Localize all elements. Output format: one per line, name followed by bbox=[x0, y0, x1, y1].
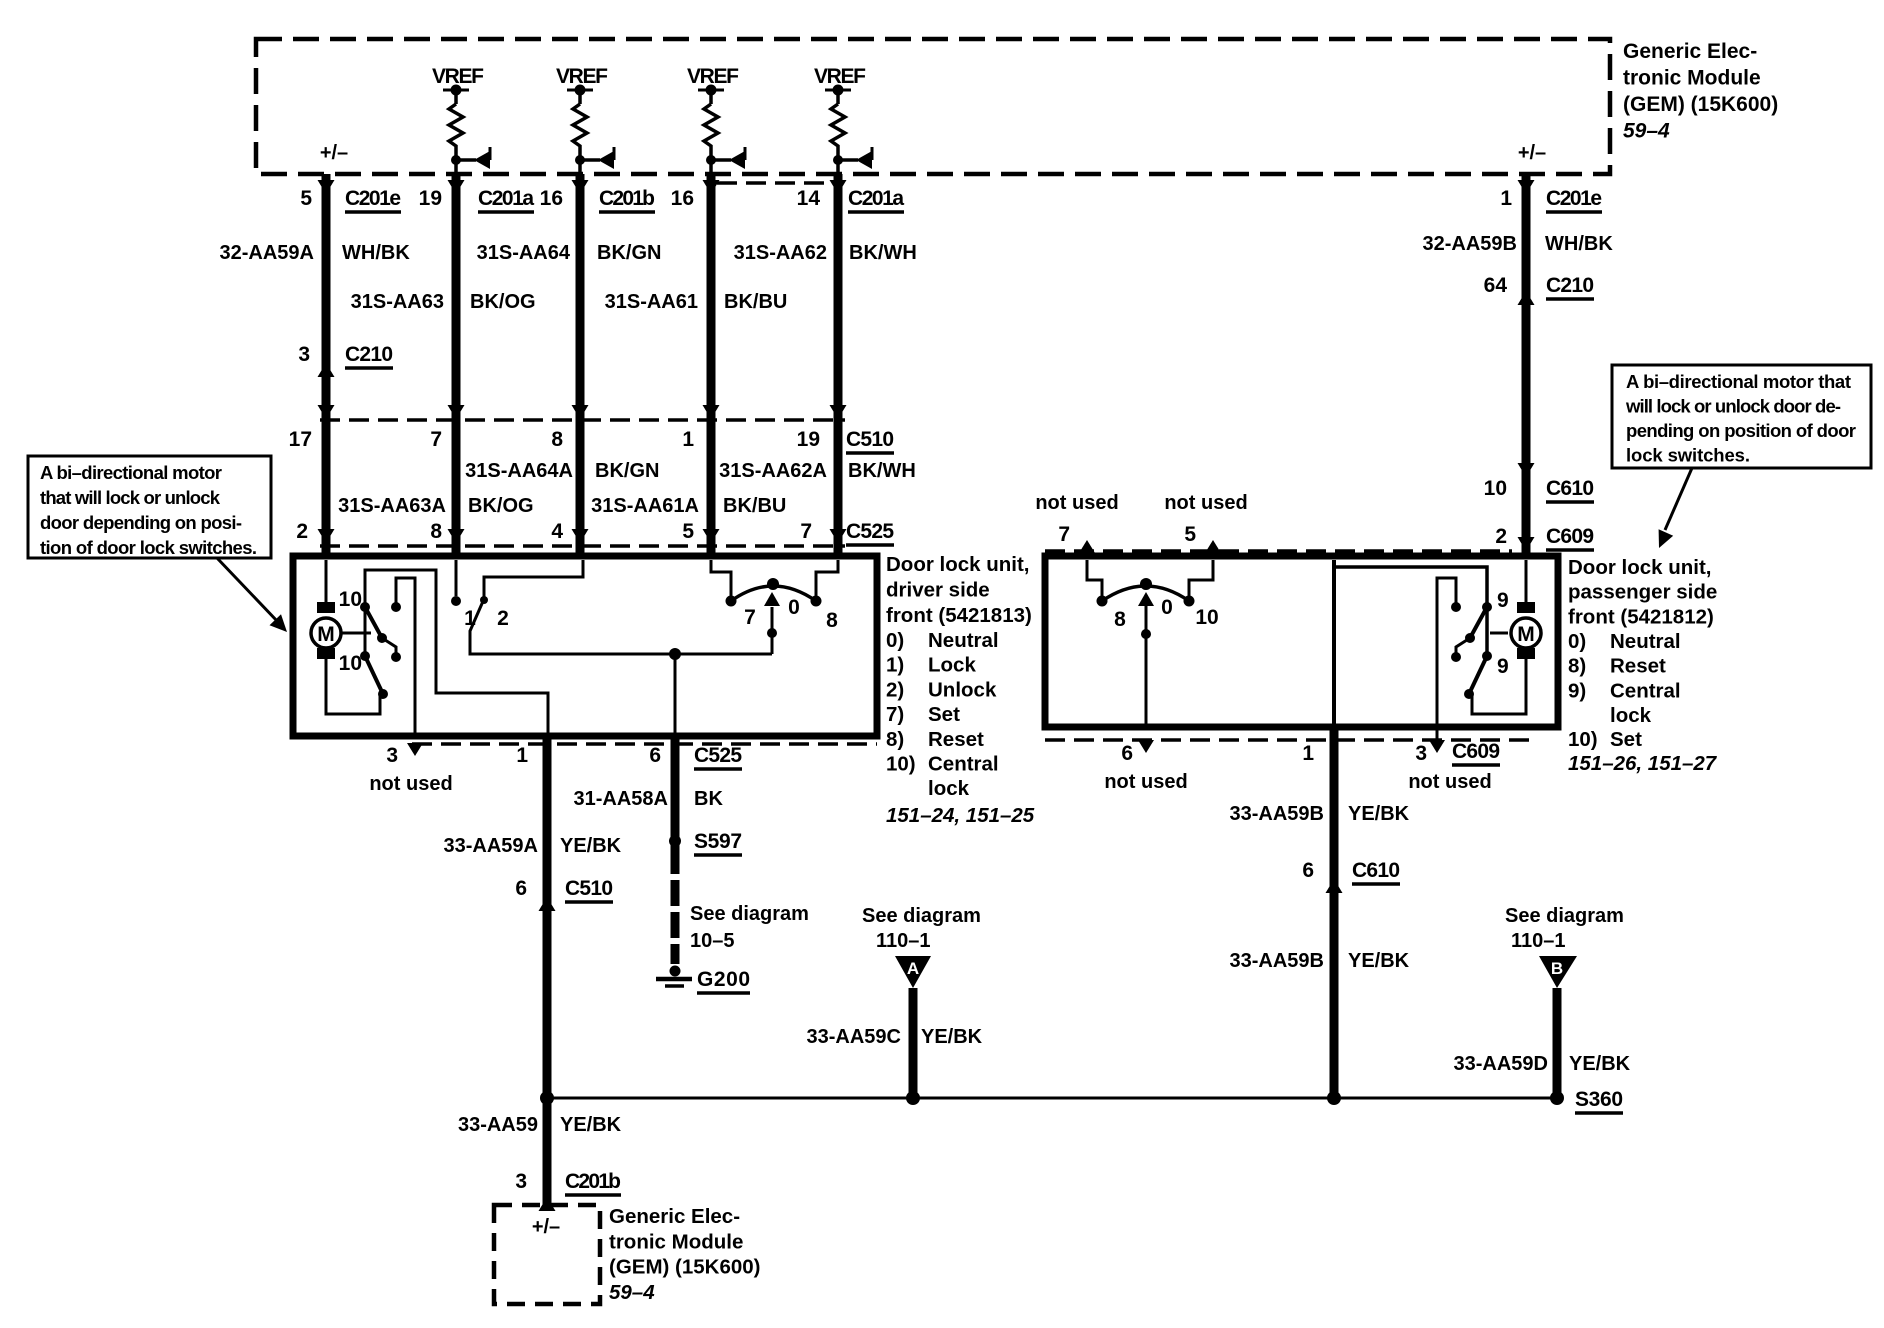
svg-text:33-AA59C: 33-AA59C bbox=[807, 1026, 901, 1048]
svg-text:5: 5 bbox=[300, 187, 312, 210]
svg-text:59–4: 59–4 bbox=[609, 1281, 655, 1304]
svg-text:lock: lock bbox=[1610, 704, 1652, 727]
svg-text:+/–: +/– bbox=[320, 142, 348, 164]
svg-text:See diagram: See diagram bbox=[862, 905, 981, 927]
svg-text:pending on position of door: pending on position of door bbox=[1626, 420, 1856, 441]
svg-text:10: 10 bbox=[339, 652, 362, 675]
svg-text:G200: G200 bbox=[697, 968, 750, 991]
svg-text:Set: Set bbox=[1610, 728, 1642, 751]
svg-text:C510: C510 bbox=[565, 877, 613, 900]
svg-text:1: 1 bbox=[464, 607, 476, 630]
svg-text:31S-AA62A: 31S-AA62A bbox=[719, 460, 827, 482]
svg-text:A bi–directional motor that: A bi–directional motor that bbox=[1626, 371, 1851, 392]
svg-text:0: 0 bbox=[788, 596, 800, 619]
svg-text:Reset: Reset bbox=[928, 728, 984, 751]
svg-text:passenger side: passenger side bbox=[1568, 581, 1717, 604]
svg-text:Central: Central bbox=[928, 753, 999, 776]
svg-text:C609: C609 bbox=[1452, 740, 1500, 763]
svg-text:BK/WH: BK/WH bbox=[848, 460, 916, 482]
svg-text:BK: BK bbox=[694, 788, 723, 810]
svg-text:7: 7 bbox=[430, 428, 442, 451]
svg-text:31S-AA63: 31S-AA63 bbox=[351, 291, 444, 313]
svg-text:9: 9 bbox=[1497, 589, 1509, 612]
svg-text:C201b: C201b bbox=[565, 1170, 621, 1193]
svg-text:9): 9) bbox=[1568, 679, 1586, 702]
svg-text:BK/GN: BK/GN bbox=[597, 242, 661, 264]
svg-text:C201b: C201b bbox=[599, 187, 655, 210]
svg-text:VREF: VREF bbox=[556, 65, 608, 88]
svg-text:not used: not used bbox=[1164, 492, 1247, 514]
svg-text:2): 2) bbox=[886, 678, 904, 701]
svg-text:4: 4 bbox=[551, 520, 563, 543]
svg-text:Generic Elec-: Generic Elec- bbox=[1623, 40, 1757, 63]
svg-text:33-AA59B: 33-AA59B bbox=[1230, 803, 1324, 825]
svg-text:8: 8 bbox=[1114, 608, 1126, 631]
svg-text:32-AA59B: 32-AA59B bbox=[1423, 233, 1517, 255]
svg-text:that will lock or unlock: that will lock or unlock bbox=[40, 487, 221, 508]
svg-text:6: 6 bbox=[1121, 742, 1133, 765]
svg-text:S360: S360 bbox=[1575, 1088, 1623, 1111]
svg-text:BK/OG: BK/OG bbox=[468, 495, 534, 517]
svg-text:BK/WH: BK/WH bbox=[849, 242, 917, 264]
svg-text:tronic Module: tronic Module bbox=[609, 1230, 743, 1253]
svg-text:front (5421813): front (5421813) bbox=[886, 604, 1032, 627]
svg-text:C201a: C201a bbox=[848, 187, 904, 210]
svg-text:B: B bbox=[1551, 959, 1563, 978]
svg-text:33-AA59B: 33-AA59B bbox=[1230, 950, 1324, 972]
svg-text:YE/BK: YE/BK bbox=[1348, 803, 1410, 825]
svg-text:front (5421812): front (5421812) bbox=[1568, 605, 1714, 628]
svg-text:not used: not used bbox=[1035, 492, 1118, 514]
svg-text:not used: not used bbox=[369, 773, 452, 795]
svg-text:+/–: +/– bbox=[532, 1216, 560, 1238]
svg-text:0: 0 bbox=[1161, 596, 1173, 619]
svg-text:7): 7) bbox=[886, 703, 904, 726]
svg-text:A bi–directional motor: A bi–directional motor bbox=[40, 462, 222, 483]
svg-text:C609: C609 bbox=[1546, 525, 1594, 548]
svg-text:10: 10 bbox=[1484, 477, 1507, 500]
svg-text:19: 19 bbox=[419, 187, 442, 210]
svg-text:Unlock: Unlock bbox=[928, 678, 997, 701]
svg-text:1): 1) bbox=[886, 654, 904, 677]
svg-text:19: 19 bbox=[797, 428, 820, 451]
svg-text:S597: S597 bbox=[694, 830, 742, 853]
svg-text:C525: C525 bbox=[846, 520, 894, 543]
svg-text:6: 6 bbox=[649, 744, 661, 767]
svg-text:31S-AA64A: 31S-AA64A bbox=[465, 460, 573, 482]
svg-text:33-AA59: 33-AA59 bbox=[458, 1114, 538, 1136]
svg-text:C201a: C201a bbox=[478, 187, 534, 210]
svg-text:7: 7 bbox=[1058, 523, 1070, 546]
svg-text:BK/BU: BK/BU bbox=[723, 495, 786, 517]
svg-text:9: 9 bbox=[1497, 655, 1509, 678]
svg-text:8: 8 bbox=[551, 428, 563, 451]
svg-text:31S-AA63A: 31S-AA63A bbox=[338, 495, 446, 517]
svg-text:5: 5 bbox=[682, 520, 694, 543]
svg-text:33-AA59D: 33-AA59D bbox=[1454, 1053, 1548, 1075]
svg-text:16: 16 bbox=[540, 187, 563, 210]
svg-text:See diagram: See diagram bbox=[1505, 905, 1624, 927]
svg-text:YE/BK: YE/BK bbox=[1569, 1053, 1631, 1075]
svg-text:lock: lock bbox=[928, 777, 970, 800]
svg-text:+/–: +/– bbox=[1518, 142, 1546, 164]
svg-text:16: 16 bbox=[671, 187, 694, 210]
svg-text:17: 17 bbox=[289, 428, 312, 451]
svg-text:C525: C525 bbox=[694, 744, 742, 767]
svg-text:151–26, 151–27: 151–26, 151–27 bbox=[1568, 752, 1718, 775]
svg-text:YE/BK: YE/BK bbox=[560, 1114, 622, 1136]
svg-text:tion of door lock switches.: tion of door lock switches. bbox=[40, 537, 257, 558]
svg-text:33-AA59A: 33-AA59A bbox=[444, 835, 538, 857]
svg-text:1: 1 bbox=[1500, 187, 1512, 210]
svg-text:110–1: 110–1 bbox=[876, 930, 931, 952]
svg-text:YE/BK: YE/BK bbox=[560, 835, 622, 857]
svg-text:31S-AA61A: 31S-AA61A bbox=[591, 495, 699, 517]
svg-text:3: 3 bbox=[386, 744, 398, 767]
svg-text:1: 1 bbox=[1302, 742, 1314, 765]
svg-text:Central: Central bbox=[1610, 679, 1681, 702]
svg-text:Lock: Lock bbox=[928, 654, 976, 677]
svg-text:YE/BK: YE/BK bbox=[1348, 950, 1410, 972]
svg-text:1: 1 bbox=[682, 428, 694, 451]
svg-text:7: 7 bbox=[744, 606, 756, 629]
svg-text:32-AA59A: 32-AA59A bbox=[220, 242, 314, 264]
svg-text:lock switches.: lock switches. bbox=[1626, 445, 1750, 466]
svg-text:2: 2 bbox=[296, 520, 308, 543]
svg-text:M: M bbox=[1517, 623, 1535, 646]
svg-text:(GEM) (15K600): (GEM) (15K600) bbox=[609, 1256, 761, 1279]
svg-text:8): 8) bbox=[1568, 655, 1586, 678]
svg-text:Generic Elec-: Generic Elec- bbox=[609, 1205, 740, 1228]
svg-text:BK/OG: BK/OG bbox=[470, 291, 536, 313]
svg-text:Neutral: Neutral bbox=[1610, 630, 1681, 653]
svg-text:door depending on posi-: door depending on posi- bbox=[40, 512, 242, 533]
svg-text:6: 6 bbox=[515, 877, 527, 900]
svg-text:tronic Module: tronic Module bbox=[1623, 67, 1761, 90]
svg-text:10): 10) bbox=[886, 753, 916, 776]
svg-text:Door lock unit,: Door lock unit, bbox=[1568, 556, 1712, 579]
svg-text:1: 1 bbox=[516, 744, 528, 767]
svg-text:BK/GN: BK/GN bbox=[595, 460, 659, 482]
svg-text:2: 2 bbox=[497, 607, 509, 630]
svg-text:10–5: 10–5 bbox=[690, 930, 735, 952]
svg-text:64: 64 bbox=[1484, 274, 1508, 297]
svg-text:110–1: 110–1 bbox=[1511, 930, 1566, 952]
svg-text:59–4: 59–4 bbox=[1623, 120, 1670, 143]
svg-text:3: 3 bbox=[1415, 742, 1427, 765]
svg-text:WH/BK: WH/BK bbox=[1545, 233, 1613, 255]
svg-text:C201e: C201e bbox=[345, 187, 401, 210]
svg-text:A: A bbox=[907, 959, 919, 978]
svg-text:31-AA58A: 31-AA58A bbox=[574, 788, 668, 810]
svg-text:31S-AA61: 31S-AA61 bbox=[605, 291, 698, 313]
svg-text:31S-AA64: 31S-AA64 bbox=[477, 242, 571, 264]
svg-text:8): 8) bbox=[886, 728, 904, 751]
svg-text:6: 6 bbox=[1302, 859, 1314, 882]
svg-text:will lock or unlock door de-: will lock or unlock door de- bbox=[1625, 396, 1841, 417]
svg-text:See diagram: See diagram bbox=[690, 903, 809, 925]
svg-text:YE/BK: YE/BK bbox=[921, 1026, 983, 1048]
svg-text:C610: C610 bbox=[1546, 477, 1594, 500]
svg-text:8: 8 bbox=[430, 520, 442, 543]
svg-text:C210: C210 bbox=[345, 343, 393, 366]
svg-text:driver side: driver side bbox=[886, 578, 990, 601]
svg-text:not used: not used bbox=[1104, 771, 1187, 793]
svg-text:(GEM) (15K600): (GEM) (15K600) bbox=[1623, 93, 1778, 116]
svg-text:Reset: Reset bbox=[1610, 655, 1666, 678]
svg-text:0): 0) bbox=[886, 629, 904, 652]
svg-text:3: 3 bbox=[515, 1170, 527, 1193]
svg-text:C610: C610 bbox=[1352, 859, 1400, 882]
svg-text:3: 3 bbox=[298, 343, 310, 366]
svg-text:M: M bbox=[317, 623, 335, 646]
svg-text:VREF: VREF bbox=[687, 65, 739, 88]
svg-text:2: 2 bbox=[1495, 525, 1507, 548]
svg-text:7: 7 bbox=[800, 520, 812, 543]
svg-text:C201e: C201e bbox=[1546, 187, 1602, 210]
svg-text:10): 10) bbox=[1568, 728, 1598, 751]
svg-text:0): 0) bbox=[1568, 630, 1586, 653]
svg-text:Door lock unit,: Door lock unit, bbox=[886, 553, 1030, 576]
svg-text:10: 10 bbox=[1195, 606, 1218, 629]
svg-text:5: 5 bbox=[1184, 523, 1196, 546]
svg-text:31S-AA62: 31S-AA62 bbox=[734, 242, 827, 264]
svg-text:10: 10 bbox=[339, 588, 362, 611]
svg-text:C210: C210 bbox=[1546, 274, 1594, 297]
svg-text:8: 8 bbox=[826, 609, 838, 632]
svg-text:Neutral: Neutral bbox=[928, 629, 999, 652]
svg-text:VREF: VREF bbox=[432, 65, 484, 88]
svg-text:BK/BU: BK/BU bbox=[724, 291, 787, 313]
svg-text:C510: C510 bbox=[846, 428, 894, 451]
svg-text:WH/BK: WH/BK bbox=[342, 242, 410, 264]
svg-text:VREF: VREF bbox=[814, 65, 866, 88]
svg-text:151–24, 151–25: 151–24, 151–25 bbox=[886, 804, 1035, 827]
svg-text:not used: not used bbox=[1408, 771, 1491, 793]
svg-text:Set: Set bbox=[928, 703, 960, 726]
svg-text:14: 14 bbox=[797, 187, 821, 210]
